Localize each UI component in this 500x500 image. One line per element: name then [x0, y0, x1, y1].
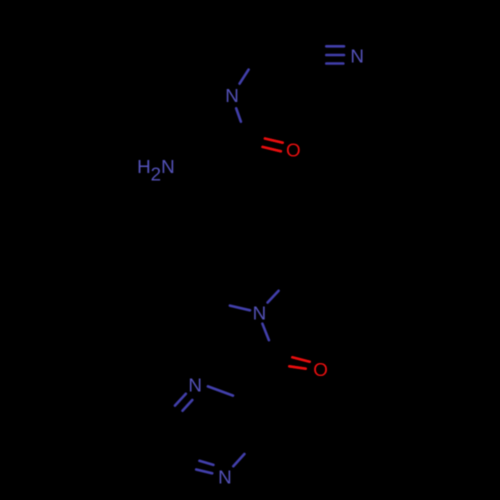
- wire: piperidine N to C3 half-bond (up-right): [268, 291, 279, 303]
- svg-text:N: N: [188, 375, 202, 396]
- wire: nitrile triple bond line 2: [326, 54, 344, 57]
- wire: piperidine N to C5 half-bond (left): [230, 306, 250, 311]
- wire: piperidine N to acyl C half-bond (down): [262, 324, 269, 341]
- wire: amide C=O double bond upper line: [265, 139, 283, 143]
- wire: pyrazine N1=C6 double bond inner line: [183, 400, 193, 411]
- svg-text:O: O: [313, 359, 328, 380]
- wire: amide C=O double bond lower line: [263, 147, 281, 151]
- wire: nitrile triple bond line 1: [326, 45, 344, 48]
- wire: amide N to carbonyl C half-bond: [236, 108, 241, 121]
- svg-text:2: 2: [151, 163, 161, 184]
- wire: nitrile triple bond line 3: [326, 62, 343, 65]
- wire: pyrazine N4 to C3 half-bond: [233, 454, 244, 466]
- wire: pyrazinoyl C=O double bond lower line: [289, 366, 305, 368]
- svg-text:N: N: [225, 85, 239, 106]
- svg-text:H: H: [137, 156, 151, 177]
- svg-text:N: N: [253, 303, 267, 324]
- svg-text:N: N: [218, 467, 232, 488]
- wire: pyrazine N1 to C2 half-bond: [208, 386, 233, 395]
- wire: amide N to CH2 half-bond: [240, 70, 249, 84]
- svg-text:O: O: [286, 139, 301, 160]
- wire: pyrazine N4=C5 double bond lower line: [196, 470, 212, 474]
- svg-text:N: N: [161, 156, 175, 177]
- wire: pyrazine N4=C5 double bond upper line: [199, 461, 213, 465]
- wire: pyrazine N1=C6 double bond outer line: [175, 394, 186, 406]
- wire: pyrazinoyl C=O double bond upper line: [292, 357, 309, 361]
- svg-text:N: N: [350, 45, 364, 66]
